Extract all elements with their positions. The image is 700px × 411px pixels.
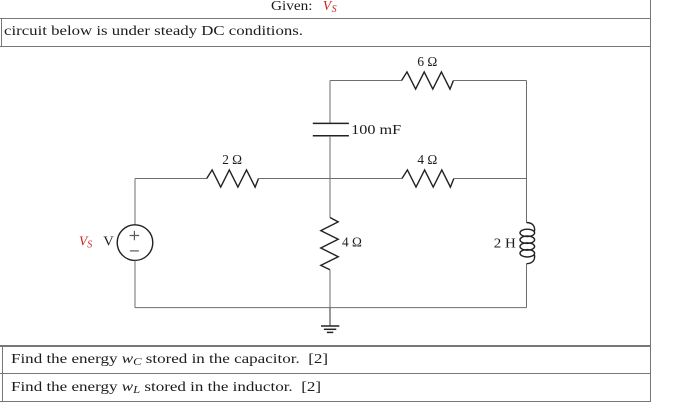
svg-text:4 Ω: 4 Ω bbox=[342, 234, 362, 249]
table rule: bottom border bbox=[0, 401, 651, 402]
voltage source plus sign bbox=[130, 231, 140, 240]
text: question capacitor bbox=[11, 352, 328, 368]
voltage source U Vs circle bbox=[117, 225, 153, 261]
svg-text:VS: VS bbox=[79, 234, 92, 251]
svg-text:2 Ω: 2 Ω bbox=[222, 152, 242, 167]
table rule: between question rows bbox=[0, 373, 651, 374]
inductor L 2H coil bbox=[520, 223, 535, 264]
text: Vs red label in heading bbox=[323, 0, 337, 15]
table rule: above capacitor question row bbox=[0, 345, 651, 346]
resistor R 4ohm vertical zigzag bbox=[321, 218, 338, 270]
svg-text:6 Ω: 6 Ω bbox=[417, 54, 437, 69]
ground stub wire bbox=[329, 308, 331, 326]
resistor R 2ohm zigzag bbox=[207, 170, 259, 187]
table rule: right vertical border bbox=[650, 0, 651, 402]
table rule: top row bottom border bbox=[0, 18, 651, 19]
wire: top wire left segment (node top-middle to 6ohm) bbox=[330, 80, 402, 82]
capacitor C 100mF bottom plate bbox=[313, 135, 349, 137]
resistor R 6ohm zigzag bbox=[402, 72, 454, 89]
svg-text:100 mF: 100 mF bbox=[351, 122, 402, 137]
wire: right branch top to inductor bbox=[526, 81, 528, 223]
wire: left branch middle wire down to source bbox=[134, 179, 136, 226]
svg-text:2 H: 2 H bbox=[494, 235, 516, 250]
wire: middle branch capacitor to middle wire bbox=[329, 136, 331, 179]
ground symbol bars bbox=[321, 326, 339, 332]
table rule: left vertical border upper segment bbox=[1, 18, 2, 47]
table rule: second row bottom border bbox=[0, 46, 651, 47]
wire: right branch inductor to bottom wire bbox=[526, 264, 528, 308]
text: Given: (row partially cut at top) bbox=[271, 0, 313, 13]
resistor R 4ohm horizontal zigzag bbox=[402, 170, 454, 187]
wire: middle branch middle wire to 4ohm vertical bbox=[329, 179, 331, 218]
wire: bottom wire bbox=[135, 307, 527, 309]
voltage source minus sign bbox=[130, 250, 139, 252]
svg-text:4 Ω: 4 Ω bbox=[417, 152, 437, 167]
text: circuit below ... bbox=[4, 24, 303, 38]
svg-text:V: V bbox=[103, 234, 114, 249]
text: question inductor bbox=[11, 380, 321, 396]
wire: top wire right segment bbox=[453, 80, 526, 82]
wire: middle wire from left node to 2ohm bbox=[135, 178, 207, 180]
wire: middle branch from top wire down to capacitor bbox=[329, 81, 331, 124]
wire: middle wire 2ohm to 4ohm horizontal bbox=[259, 178, 403, 180]
wire: left branch source to bottom wire bbox=[134, 260, 136, 307]
table rule: left vertical border lower segment bbox=[2, 345, 3, 401]
wire: middle wire 4ohm to right branch bbox=[454, 178, 527, 180]
capacitor C 100mF top plate bbox=[313, 122, 349, 124]
wire: middle branch 4ohm vertical to bottom wire bbox=[329, 270, 331, 308]
